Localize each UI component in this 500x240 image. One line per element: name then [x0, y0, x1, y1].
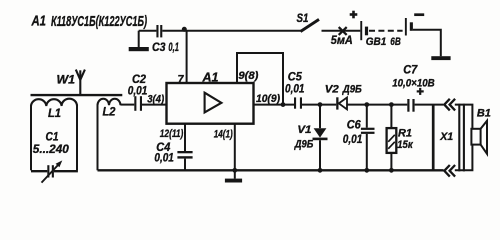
diode V1	[313, 105, 328, 171]
svg-text:9(8): 9(8)	[238, 70, 258, 82]
wire tank bottom	[31, 170, 78, 172]
svg-text:W1: W1	[57, 74, 76, 87]
svg-text:С5: С5	[288, 70, 303, 83]
capacitor C3	[156, 25, 162, 37]
svg-text:3(4): 3(4)	[147, 93, 164, 105]
svg-text:14(1): 14(1)	[214, 129, 233, 141]
battery GB1	[360, 18, 413, 40]
antenna W1	[76, 70, 85, 95]
svg-text:10(9): 10(9)	[256, 93, 280, 105]
svg-text:Д9Б: Д9Б	[342, 84, 362, 96]
svg-text:0,1: 0,1	[168, 40, 179, 54]
svg-text:0,01: 0,01	[128, 84, 148, 97]
svg-text:12(11): 12(11)	[160, 128, 184, 140]
svg-text:С6: С6	[347, 119, 362, 132]
capacitor C6	[361, 105, 375, 171]
node R1 junction	[389, 102, 394, 107]
wire bottom rail	[98, 169, 444, 171]
wire battery to right ground	[413, 30, 441, 56]
node bridge junction	[281, 102, 286, 107]
svg-text:Х1: Х1	[439, 131, 453, 143]
speaker B1	[471, 121, 487, 154]
node V1 junction	[318, 102, 323, 107]
svg-text:С3: С3	[152, 40, 166, 54]
label GB1 6V	[366, 36, 401, 48]
node C6 junction	[364, 102, 369, 107]
svg-text:V1: V1	[297, 124, 311, 136]
node C6 rail	[364, 168, 369, 173]
svg-text:С7: С7	[403, 63, 418, 76]
svg-text:R1: R1	[398, 127, 412, 139]
node rail pin14	[232, 168, 237, 173]
capacitor C2	[134, 96, 142, 111]
ground (center)	[225, 179, 242, 183]
wire C5 to V2	[302, 104, 336, 106]
svg-text:15к: 15к	[397, 139, 414, 151]
svg-text:GB1: GB1	[366, 36, 387, 48]
label V2 D9B	[325, 83, 362, 95]
capacitor C4	[177, 151, 192, 159]
connector X1 bottom chevrons	[444, 165, 455, 177]
wire ground to C3	[139, 30, 157, 32]
inductor L2	[98, 99, 121, 106]
capacitor C5	[294, 97, 302, 108]
svg-text:А1: А1	[202, 71, 219, 85]
svg-text:10,0×10В: 10,0×10В	[392, 78, 435, 90]
wire V2 to C7	[347, 104, 407, 106]
svg-text:К118УС1Б(К122УС1Б): К118УС1Б(К122УС1Б)	[51, 14, 147, 30]
wire X1 to B1 top	[455, 105, 473, 129]
ground (right)	[431, 56, 450, 60]
wire tank left	[30, 106, 32, 171]
node V1 rail	[318, 168, 323, 173]
svg-text:Д9Б: Д9Б	[294, 138, 313, 150]
amplifier triangle	[205, 93, 222, 113]
capacitor C7	[407, 99, 414, 112]
svg-text:0,01: 0,01	[343, 133, 363, 146]
switch S1	[301, 19, 320, 31]
svg-text:S1: S1	[297, 12, 309, 25]
svg-text:6В: 6В	[390, 36, 401, 48]
title A1 K118US1B	[31, 14, 147, 30]
plus sign battery	[350, 11, 358, 19]
wire feedback bridge 9(8) to 10(9)	[237, 53, 283, 105]
meter insertion mark 5mA	[339, 27, 347, 35]
svg-text:0,01: 0,01	[285, 83, 305, 96]
connector X1 top chevrons	[444, 99, 455, 111]
inductor L1	[31, 99, 77, 106]
wire C4 to rail	[184, 159, 186, 171]
wire A1 out to C5	[254, 104, 295, 106]
wire S1 to meter point	[322, 30, 361, 32]
svg-text:0,01: 0,01	[154, 151, 174, 164]
svg-text:L1: L1	[48, 107, 61, 120]
plus sign C7	[417, 88, 424, 95]
node R1 rail	[389, 168, 394, 173]
wire pin 14(1) down	[234, 124, 236, 179]
connector X1 contact line 1	[432, 105, 435, 171]
svg-text:В1: В1	[477, 108, 491, 120]
svg-text:А1: А1	[31, 14, 46, 30]
svg-text:L2: L2	[103, 106, 117, 119]
diode V2	[336, 97, 347, 109]
wire pin 7	[186, 31, 188, 83]
wire C7 to X1	[415, 104, 444, 106]
svg-text:7: 7	[178, 74, 185, 87]
connector X1 contact lines 2,3	[459, 104, 464, 172]
label C3 0,1	[152, 40, 179, 54]
wire C2 to A1	[142, 104, 167, 106]
svg-text:С1: С1	[46, 131, 59, 144]
ground (C3 side)	[129, 31, 149, 52]
wire pin 12(11) down	[184, 124, 186, 151]
wire X1 to B1 bottom	[455, 145, 473, 171]
wire C3 to junction and top rail to S1	[162, 30, 301, 32]
wire L2 left down	[97, 105, 99, 171]
op-amp U1 box A1	[167, 83, 254, 124]
svg-text:V2: V2	[325, 83, 340, 95]
node top rail junction	[182, 27, 187, 32]
resistor R1	[387, 105, 397, 171]
capacitor C1 (variable)	[42, 160, 63, 182]
magnetic antenna core	[31, 94, 123, 96]
wire L2 to C2	[121, 104, 135, 106]
wire tank right	[76, 106, 78, 171]
minus sign battery	[414, 13, 424, 16]
svg-text:5...240: 5...240	[33, 143, 70, 156]
svg-text:5мА: 5мА	[331, 34, 353, 47]
